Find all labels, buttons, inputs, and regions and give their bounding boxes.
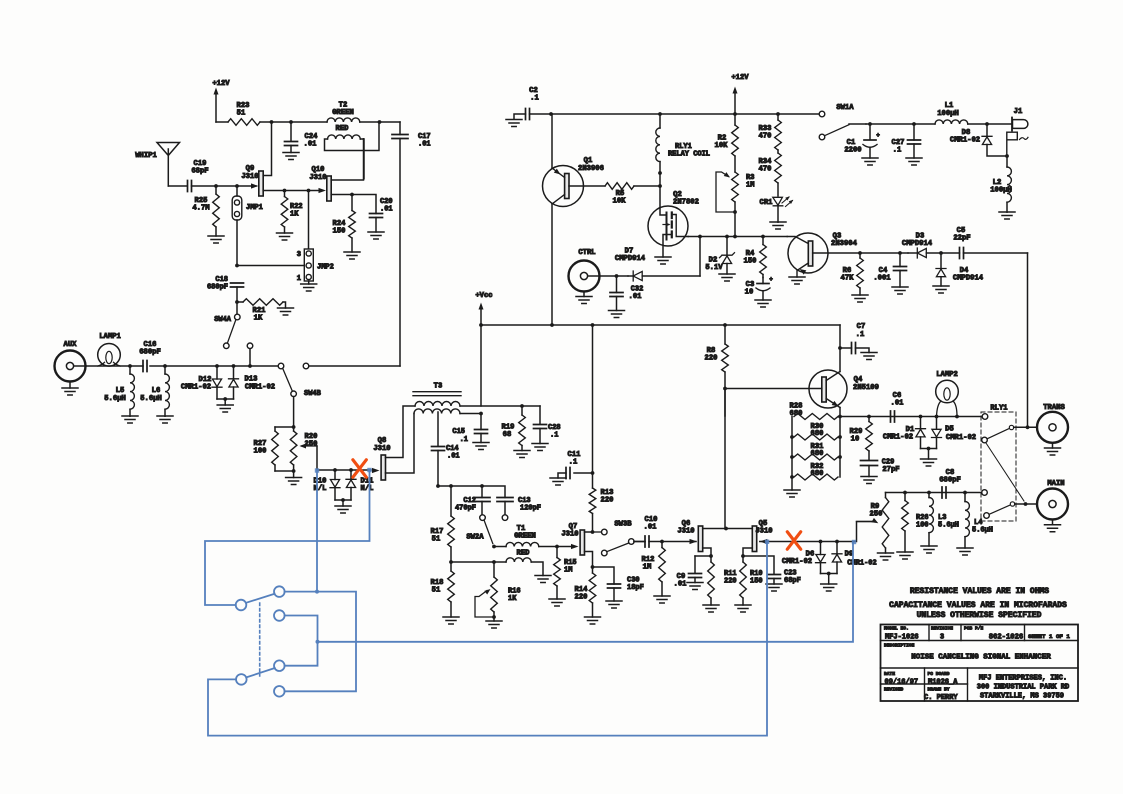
svg-text:L6: L6	[152, 387, 161, 395]
node D1 junction	[919, 415, 923, 419]
node D6/D9 ground junction	[827, 572, 831, 576]
svg-text:PCB P/N: PCB P/N	[964, 626, 984, 632]
title block drawn	[924, 694, 958, 702]
potentiometer R9	[857, 493, 894, 561]
capacitor C14	[432, 412, 460, 486]
inductor L5	[104, 366, 138, 423]
node RLY1 rail junction	[658, 112, 662, 116]
node D10 junction	[333, 468, 337, 472]
connector CTRL	[569, 249, 600, 304]
wire T3 primary to R19/C28	[460, 405, 540, 407]
capacitor C10	[634, 516, 662, 547]
resistor R32	[794, 463, 838, 480]
transistor Q8	[373, 406, 415, 480]
lamp LAMP2	[936, 371, 959, 417]
capacitor C29	[861, 459, 900, 484]
transformer T1 green winding	[494, 525, 573, 547]
node R20 bottom junction	[292, 469, 296, 473]
resistor R25	[192, 186, 224, 243]
inductor L6	[140, 366, 173, 423]
wire Q9 source to Q10 gate	[285, 190, 323, 192]
svg-text:TRANS: TRANS	[1043, 404, 1065, 412]
svg-text:C15: C15	[452, 428, 465, 436]
svg-text:STARKVILLE, MS 39759: STARKVILLE, MS 39759	[980, 693, 1064, 701]
node C24 junction	[289, 120, 293, 124]
note unless	[917, 611, 1042, 620]
svg-text:2N5109: 2N5109	[853, 384, 879, 392]
svg-text:220: 220	[724, 578, 737, 586]
node R31 right	[838, 455, 842, 459]
resistor R24	[333, 195, 360, 260]
svg-text:REVISION: REVISION	[931, 626, 953, 632]
node R33 rail junction	[776, 112, 780, 116]
title block revision	[940, 634, 944, 642]
title block sheet	[1028, 633, 1070, 640]
resistor R33	[759, 114, 782, 150]
capacitor C13	[497, 497, 541, 515]
svg-text:5.6µH: 5.6µH	[972, 527, 993, 535]
node T2 output junction	[378, 120, 382, 124]
lamp LAMP1	[98, 333, 122, 366]
wire T2 to C17	[360, 121, 400, 123]
svg-text:LAMP2: LAMP2	[936, 371, 958, 379]
wire +12V rail (control)	[551, 113, 819, 115]
node MAIN line junction	[1024, 502, 1028, 506]
diode D9	[832, 542, 877, 574]
svg-text:.01: .01	[644, 524, 658, 532]
title block model	[885, 634, 919, 642]
node RLY1 coil bottom junction	[658, 171, 662, 175]
svg-text:SHEET 1 OF 1: SHEET 1 OF 1	[1028, 633, 1070, 640]
svg-text:.1: .1	[460, 436, 468, 444]
capacitor C19	[188, 160, 217, 192]
wire to TRANS jack	[1014, 426, 1037, 428]
wire +12V rail to R23	[216, 121, 228, 123]
svg-text:D13: D13	[245, 376, 258, 384]
svg-text:09/16/97: 09/16/97	[885, 679, 919, 687]
svg-text:DRAWN BY: DRAWN BY	[928, 687, 950, 693]
wire D6 D9 common	[821, 573, 838, 575]
node D6 junction	[819, 540, 823, 544]
capacitor C8	[939, 469, 961, 498]
svg-text:CMR1-02: CMR1-02	[181, 384, 211, 392]
svg-text:Q10: Q10	[312, 166, 325, 174]
svg-text:CMR1-02: CMR1-02	[883, 434, 913, 442]
note resistance	[910, 587, 1049, 596]
svg-text:WHIP1: WHIP1	[135, 152, 157, 160]
svg-text:CAPACITANCE VALUES ARE IN MICR: CAPACITANCE VALUES ARE IN MICROFARADS	[889, 601, 1067, 610]
capacitor C7	[838, 323, 877, 360]
diode D3	[902, 233, 941, 259]
diode D6	[782, 542, 826, 574]
node Q7 drain junction	[591, 530, 595, 534]
ground for R bank	[784, 477, 800, 497]
capacitor C30	[593, 567, 644, 608]
svg-text:.01: .01	[304, 141, 318, 149]
svg-text:680pF: 680pF	[939, 477, 961, 485]
transistor Q9	[241, 122, 284, 196]
transistor Q1	[543, 157, 606, 207]
node TRANS line junction	[1026, 425, 1030, 429]
diode D12	[181, 366, 222, 399]
wire filter line	[438, 486, 505, 498]
svg-text:68pF: 68pF	[784, 577, 801, 585]
svg-text:L5: L5	[116, 387, 125, 395]
svg-text:680: 680	[811, 430, 824, 438]
capacitor C5	[941, 227, 1028, 259]
svg-text:+12V: +12V	[212, 80, 230, 88]
transformer T2 red winding	[325, 122, 380, 179]
svg-text:5.1V: 5.1V	[705, 264, 723, 272]
capacitor C4	[873, 253, 908, 294]
svg-text:.1: .1	[893, 147, 902, 155]
svg-text:MFJ ENTERPRISES, INC.: MFJ ENTERPRISES, INC.	[979, 675, 1067, 683]
svg-text:CMR1-02: CMR1-02	[782, 558, 812, 566]
node C27 junction	[912, 122, 916, 126]
wire D10 D11 common	[335, 499, 351, 501]
transistor Q7	[561, 523, 592, 567]
wire R17 R18 T1red	[451, 561, 494, 563]
node R4 junction	[761, 235, 765, 239]
svg-text:CMR1-02: CMR1-02	[847, 560, 876, 568]
transistor Q10 gate arrow	[319, 188, 327, 193]
node C4 junction	[898, 251, 902, 255]
diode D1	[883, 417, 926, 449]
wire R28 left rail	[791, 417, 793, 478]
diode D11	[346, 470, 374, 500]
node L5 junction	[128, 364, 132, 368]
wire C1 to C27	[866, 123, 935, 125]
wire R8 to Q5/Q6 drain	[724, 389, 726, 529]
svg-text:.01: .01	[629, 293, 643, 301]
svg-text:47K: 47K	[841, 275, 855, 283]
node T1 input junction	[492, 545, 496, 549]
svg-text:2N3904: 2N3904	[831, 240, 858, 248]
node L6 junction	[163, 364, 167, 368]
svg-text:10: 10	[851, 436, 860, 444]
wire RLY1 to Q2	[660, 173, 667, 215]
transistor Q3	[787, 233, 908, 285]
diode D13	[229, 366, 276, 399]
transformer T2 green winding	[327, 102, 360, 123]
diode D7	[615, 248, 700, 282]
svg-text:MODEL NO.: MODEL NO.	[884, 626, 909, 632]
svg-text:.01: .01	[891, 400, 905, 408]
wire Q1 collector to Vcc rail	[551, 204, 553, 325]
wire Q5 gate line	[760, 522, 874, 542]
wire Vcc to T3	[480, 325, 482, 406]
node D12/D13 ground junction	[223, 397, 227, 401]
node R2 rail junction	[733, 112, 737, 116]
resistor R11	[703, 556, 737, 612]
connector J1	[1007, 108, 1028, 156]
capacitor C17	[392, 122, 431, 366]
resistor R4	[744, 237, 767, 278]
node C12 top junction	[480, 484, 484, 488]
transistor Q5 gate arrow	[760, 539, 768, 544]
transistor Q6	[677, 520, 752, 556]
svg-text:680: 680	[811, 470, 824, 478]
wire emitter line	[840, 416, 982, 418]
switch SW4B	[278, 363, 400, 427]
node L3 junction	[927, 491, 931, 495]
transistor Q7 gate arrow	[571, 544, 579, 549]
svg-text:68pF: 68pF	[191, 168, 208, 176]
antenna WHIP1	[135, 143, 179, 187]
title block company	[977, 675, 1069, 701]
svg-text:.1: .1	[569, 459, 578, 467]
svg-text:5.6µH: 5.6µH	[104, 395, 126, 403]
resistor R15	[549, 547, 577, 607]
svg-text:2N3906: 2N3906	[578, 165, 604, 173]
diode D8	[950, 124, 1007, 156]
switch blue lever A	[246, 594, 275, 603]
transistor Q8 gate arrow	[372, 468, 380, 473]
svg-text:CMPD914: CMPD914	[615, 255, 646, 263]
node R3 wiper junction	[733, 210, 737, 214]
node R26 junction	[903, 491, 907, 495]
node R6 junction	[858, 251, 862, 255]
svg-text:1K: 1K	[508, 595, 517, 603]
svg-text:M1026_A: M1026_A	[928, 679, 958, 687]
capacitor C20	[368, 198, 393, 239]
node R25 junction	[214, 184, 218, 188]
node L2 junction	[1005, 154, 1009, 158]
connector MAIN	[1037, 480, 1068, 532]
capacitor C15	[452, 414, 489, 450]
node R31 left	[790, 455, 794, 459]
svg-text:1K: 1K	[290, 211, 299, 219]
node D9 junction	[835, 540, 839, 544]
node R14 junction	[591, 565, 595, 569]
node C2 junction	[549, 112, 553, 116]
resistor R18	[431, 562, 459, 624]
svg-text:.1: .1	[530, 95, 539, 103]
resistor R6	[841, 253, 868, 302]
potentiometer R16	[475, 547, 521, 629]
svg-text:UNLESS OTHERWISE SPECIFIED: UNLESS OTHERWISE SPECIFIED	[917, 611, 1042, 620]
node C18 junction	[235, 264, 239, 268]
svg-text:REVISED: REVISED	[884, 687, 904, 693]
svg-text:.001: .001	[873, 275, 891, 283]
wire R28 right rail	[839, 417, 841, 478]
wire blue net1	[315, 468, 319, 593]
node R12 junction	[660, 540, 664, 544]
resistor R30	[794, 423, 838, 440]
transformer T3 core	[413, 383, 461, 396]
wire Vcc rail	[481, 324, 840, 326]
svg-text:.01: .01	[380, 206, 393, 214]
jumper JMP1	[232, 186, 263, 266]
node R21 junction	[235, 300, 239, 304]
svg-text:150: 150	[744, 258, 757, 266]
svg-text:680pF: 680pF	[139, 349, 161, 357]
svg-text:5.6µH: 5.6µH	[140, 395, 162, 403]
switch blue contact B	[274, 586, 285, 597]
node JMP2 drop junction	[307, 189, 311, 193]
wire to MAIN jack	[1015, 503, 1037, 505]
node D2 junction	[725, 235, 729, 239]
relay linkage	[986, 443, 1024, 501]
wire R20 wiper to bus	[316, 446, 318, 470]
svg-text:10K: 10K	[715, 142, 729, 150]
svg-text:CMR1-02: CMR1-02	[946, 434, 976, 442]
node JMP1 junction	[235, 184, 239, 188]
svg-text:Q8: Q8	[378, 437, 387, 445]
svg-text:D5: D5	[945, 426, 954, 434]
svg-text:100: 100	[254, 448, 267, 456]
capacitor C23	[743, 556, 801, 591]
svg-text:3: 3	[297, 251, 301, 259]
svg-text:3: 3	[940, 634, 944, 642]
svg-text:.01: .01	[674, 581, 688, 589]
node Q4 emitter junction	[838, 415, 842, 419]
capacitor C2	[506, 87, 551, 127]
transformer T3 secondary winding	[414, 409, 460, 414]
node R18 junction	[449, 560, 453, 564]
svg-text:250: 250	[870, 511, 883, 519]
power +12V (control)	[731, 74, 749, 114]
node D8 junction	[985, 122, 989, 126]
svg-text:CMPD914: CMPD914	[902, 240, 933, 248]
node R13 rail junction	[591, 323, 595, 327]
wire CTRL drop	[699, 237, 701, 277]
svg-text:SW3B: SW3B	[614, 521, 632, 529]
svg-text:10K: 10K	[613, 198, 627, 206]
ground for D12/D13	[217, 399, 233, 412]
diode D5	[932, 417, 977, 449]
svg-text:J310: J310	[373, 445, 390, 453]
svg-text:100: 100	[916, 522, 929, 530]
svg-text:LAMP1: LAMP1	[99, 333, 121, 341]
svg-text:1K: 1K	[254, 315, 263, 323]
svg-text:J310: J310	[755, 528, 772, 536]
capacitor C6	[891, 392, 905, 422]
svg-text:MFJ-1026: MFJ-1026	[885, 634, 919, 642]
node Q6/Q5 drain junction	[724, 527, 728, 531]
node R30 left	[790, 435, 794, 439]
resistor R22	[277, 191, 303, 241]
svg-text:300 INDUSTRIAL PARK RD: 300 INDUSTRIAL PARK RD	[977, 684, 1069, 692]
svg-text:1M: 1M	[746, 182, 754, 190]
resistor R13	[589, 473, 613, 532]
svg-text:MAIN: MAIN	[1047, 480, 1064, 488]
svg-text:SW2A: SW2A	[466, 534, 484, 542]
svg-text:GREEN: GREEN	[514, 533, 536, 541]
svg-text:220: 220	[705, 355, 718, 363]
wire AUX bus	[86, 365, 278, 367]
capacitor C28	[532, 406, 561, 451]
potentiometer R3	[716, 172, 754, 212]
transistor Q10	[309, 139, 363, 201]
node Q5 source junction	[741, 554, 745, 558]
node R22 junction	[283, 189, 287, 193]
node SW4A bus junction	[248, 364, 252, 368]
power +12V (left)	[212, 80, 230, 122]
resistor R31	[794, 443, 838, 460]
svg-text:120pF: 120pF	[520, 505, 541, 513]
ground for D1/D5	[921, 449, 937, 467]
title block board	[928, 679, 958, 687]
wire C8 line	[886, 492, 982, 494]
svg-text:18pF: 18pF	[627, 584, 644, 592]
node D11 junction	[349, 468, 353, 472]
node R30 right	[838, 435, 842, 439]
capacitor C27	[892, 124, 922, 165]
svg-text:C7: C7	[857, 323, 866, 331]
svg-text:PC BOARD: PC BOARD	[928, 671, 950, 677]
switch SW4A	[214, 302, 253, 366]
svg-text:Q4: Q4	[854, 376, 863, 384]
resistor R34	[759, 150, 782, 196]
wire Q10 source to C20	[352, 195, 376, 214]
inductor L2	[990, 156, 1015, 219]
svg-text:51: 51	[432, 536, 441, 544]
wire to JMP1 node	[216, 185, 256, 187]
switch blue contact D	[274, 660, 285, 671]
switch blue pole E	[236, 674, 247, 685]
resistor R19	[502, 406, 530, 458]
node R11 junction	[709, 554, 713, 558]
svg-text:+: +	[769, 276, 773, 283]
node R32 left	[790, 475, 794, 479]
svg-text:C. PERRY: C. PERRY	[924, 694, 958, 702]
node R5/RLY1 junction	[658, 184, 662, 188]
node D1/D5 ground junction	[927, 447, 931, 451]
svg-text:RLY1: RLY1	[990, 405, 1008, 413]
wire Q1 emitter to rail	[551, 114, 553, 169]
svg-text:470pF: 470pF	[455, 505, 476, 513]
resistor R10	[735, 556, 763, 612]
svg-text:RELAY COIL: RELAY COIL	[668, 151, 710, 159]
capacitor C32	[609, 276, 644, 318]
resistor R14	[575, 567, 601, 624]
node D4 junction	[939, 251, 943, 255]
svg-text:J310: J310	[677, 528, 694, 536]
node R24 junction	[350, 193, 354, 197]
node D10/D11 ground junction	[341, 498, 345, 502]
svg-text:2200: 2200	[844, 147, 861, 155]
resistor R12	[642, 542, 670, 604]
svg-text:T3: T3	[434, 383, 443, 391]
svg-text:Q9: Q9	[246, 165, 255, 173]
wire blue C-D loop	[285, 616, 320, 666]
relay contact bottom throw	[982, 490, 988, 496]
wire D1 D5 common	[921, 448, 937, 450]
switch blue linkage	[259, 603, 261, 676]
node R29 junction	[867, 415, 871, 419]
potentiometer R20	[290, 427, 317, 471]
node L4 junction	[963, 491, 967, 495]
svg-text:+Vcc: +Vcc	[475, 292, 492, 300]
node R19 junction	[520, 404, 524, 408]
svg-text:680pF: 680pF	[207, 284, 228, 292]
svg-text:N/L: N/L	[361, 485, 374, 493]
node D12 junction	[215, 364, 219, 368]
transformer T1 red winding	[494, 550, 551, 583]
wire R3 to out line	[734, 202, 736, 237]
diode D10	[314, 470, 340, 500]
resistor R29	[850, 417, 873, 461]
svg-text:SW4B: SW4B	[304, 390, 322, 398]
svg-text:51: 51	[432, 587, 441, 595]
resistor R5	[605, 183, 660, 206]
svg-text:10: 10	[745, 289, 754, 297]
svg-text:RESISTANCE VALUES ARE IN OHMS: RESISTANCE VALUES ARE IN OHMS	[910, 587, 1049, 596]
wire blue pole-A feed	[205, 468, 372, 605]
title block labels	[884, 626, 984, 693]
svg-text:RED: RED	[336, 125, 350, 133]
